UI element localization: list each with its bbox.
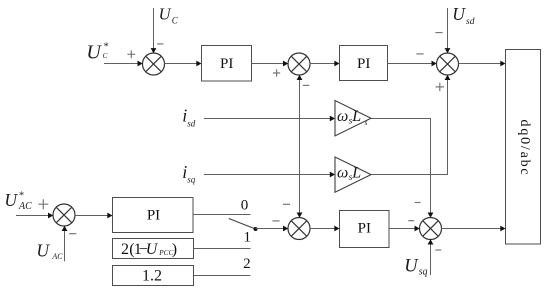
value block 2(1-Upcc) [113,239,194,259]
svg-text:2: 2 [243,256,251,272]
gain triangle G1 [335,101,371,136]
summing junction S5 [420,218,442,240]
PI block PI2 [340,46,388,81]
svg-text:U: U [86,41,102,63]
svg-text:PI: PI [358,221,371,237]
svg-text:sq: sq [419,267,428,278]
node label 2 [243,256,251,272]
svg-text:U: U [36,240,50,260]
sign minus at S6 bottom input [69,233,76,235]
PI block PI3 (AC voltage loop) [113,198,194,233]
svg-text:L: L [351,164,361,181]
wire PI4 to summing junction S5 [389,226,420,232]
sign minus at S5 top input [415,202,421,204]
wire S2 to PI2 [310,61,340,67]
sign minus at S2 bottom input [303,84,309,86]
wire S3 to dq0/abc block [458,61,505,67]
sign minus at S3 left input [416,53,423,55]
wire S6 to PI3 [75,213,113,219]
wire U_AC vertical into S6 bottom [62,226,68,261]
svg-text:ω: ω [337,108,348,125]
sign minus at S4 top input [283,203,290,205]
PI block PI1 [202,46,252,82]
wire PI3 output to switch position 0 [193,214,251,216]
wire U_C* input horizontal into S1 [104,61,143,67]
sign minus at S1 top input [157,43,163,45]
node label i_sq [182,162,196,185]
node label i_sd [182,106,196,129]
transform block dq0/abc [506,50,541,245]
gain triangle G2 [335,157,371,192]
sign minus at S4 left input [272,220,279,222]
wire U*_AC into summing junction S6 [16,213,53,219]
node label U_sd [452,4,474,27]
svg-text:1: 1 [244,230,252,246]
wire G1 output right then down into S5 top [371,119,433,218]
svg-text:0: 0 [241,197,249,213]
node label 1 [244,230,252,246]
wire switch pole to S4 [256,226,289,232]
wire block A to switch position 1 [194,248,251,250]
sign minus at S3 top input [435,32,442,34]
sign minus at S5 bottom input [435,249,441,251]
wire i_sd into gain G1 [204,116,335,122]
wire U_sq vertical into S5 bottom [428,239,434,275]
wire U_C vertical into summing junction S1 [151,8,157,53]
svg-text:U: U [146,241,159,258]
node label U_C [159,4,179,25]
wire PI1 to summing junction S2 [252,61,289,67]
wire block B to switch position 2 [194,275,251,277]
node label U*_AC [4,190,32,212]
svg-text:L: L [351,108,361,125]
svg-text:2: 2 [121,241,129,258]
svg-text:sd: sd [466,17,475,27]
value block 1.2 [113,266,194,286]
svg-text:sd: sd [187,118,196,128]
sign plus at S2 left input [273,69,280,76]
svg-text:PI: PI [147,208,160,224]
svg-text:U: U [159,4,172,23]
svg-text:C: C [172,15,179,25]
svg-text:ω: ω [337,164,348,181]
sign plus at S6 left input [38,199,48,209]
wire S4 to PI4 [310,226,340,232]
wire G2 output right then up into S3 bottom [371,75,450,175]
summing junction S3 [437,53,459,75]
svg-text:s: s [365,118,368,127]
sign plus at S3 bottom input [436,83,444,91]
wire i_sq into gain G2 [204,172,335,178]
wire S1 to PI1 [164,61,201,67]
svg-text:U: U [404,257,419,277]
svg-text:dq0/abc: dq0/abc [517,120,532,177]
node label 0 [241,197,249,213]
sign minus at S5 left input [408,220,414,222]
svg-text:U: U [4,190,18,210]
svg-text:1.2: 1.2 [142,268,162,285]
svg-text:AC: AC [51,252,63,261]
summing junction S6 [53,204,75,226]
wire S2 bottom to S4 top vertical feedback [297,75,303,218]
summing junction S4 [288,218,310,240]
svg-text:AC: AC [18,201,32,212]
svg-text:sq: sq [187,175,196,185]
switch arm and pole [229,219,258,232]
summing junction S1 [143,53,165,75]
PI block PI4 [340,211,390,248]
node label U_AC [36,240,63,261]
wire U_sd vertical into S3 [445,8,451,53]
svg-text:*: * [18,191,24,202]
svg-text:PI: PI [357,56,370,72]
summing junction S2 [288,53,310,75]
svg-text:PI: PI [220,56,233,72]
sign plus at S1 left input [127,50,135,58]
wire PI2 to summing junction S3 [388,61,437,67]
node label U_sq [404,257,427,278]
node label U*_C [86,41,109,63]
wire S5 to dq0/abc block [441,226,505,232]
svg-text:U: U [452,4,466,24]
svg-text:): ) [172,241,177,258]
